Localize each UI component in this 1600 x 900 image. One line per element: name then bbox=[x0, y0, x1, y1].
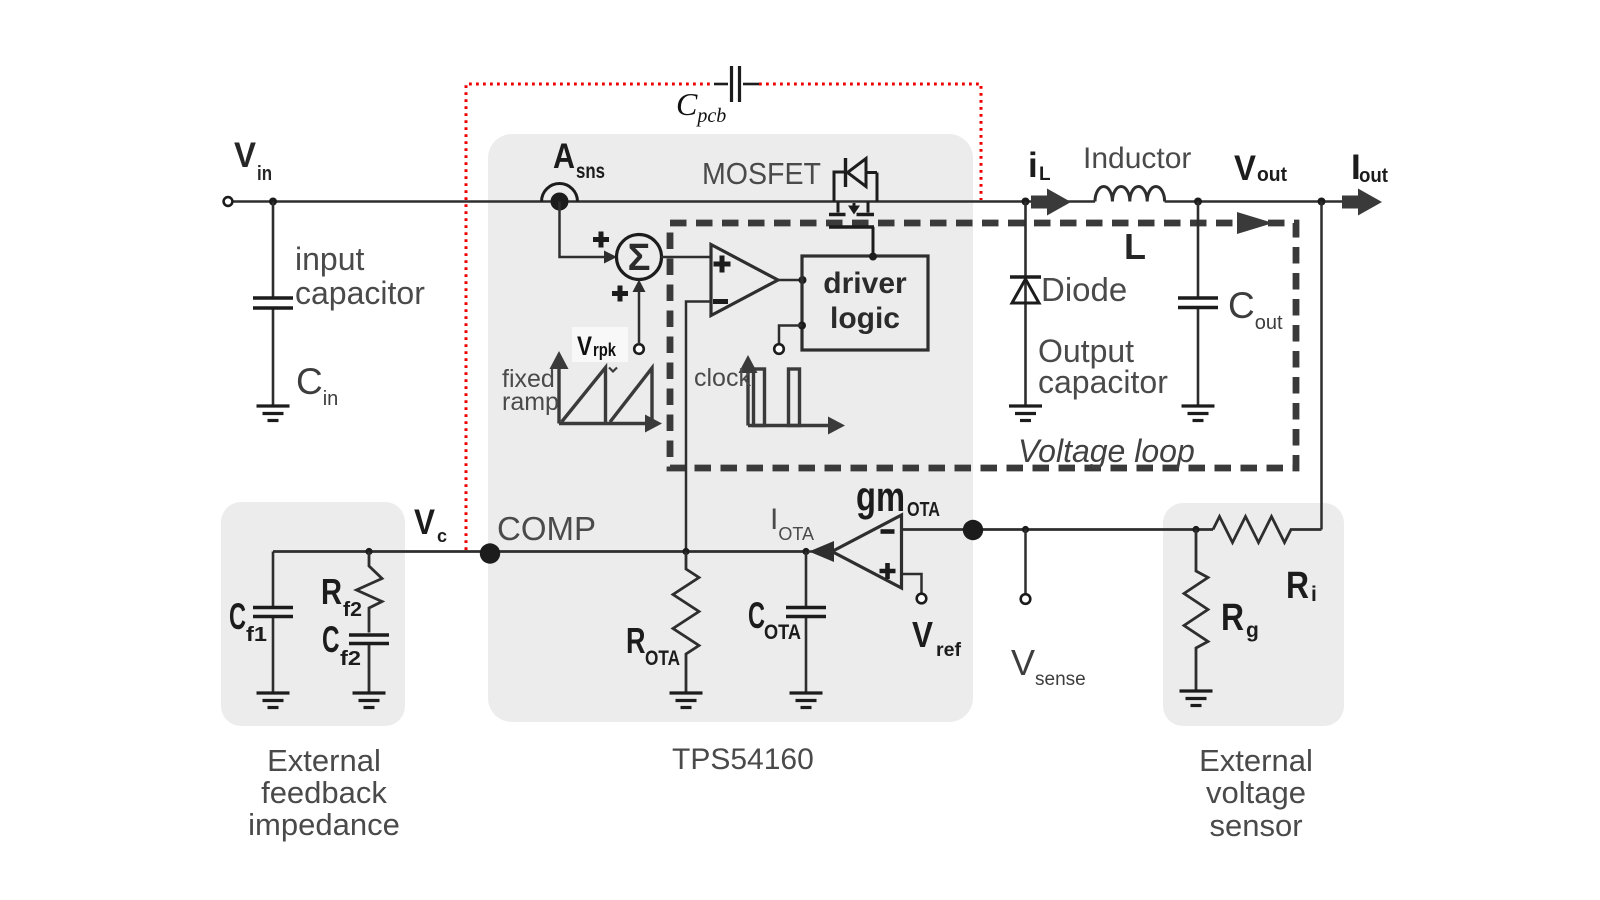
svg-text:f1: f1 bbox=[246, 624, 267, 646]
ground (Cf2) bbox=[353, 693, 386, 708]
svg-text:f2: f2 bbox=[343, 599, 362, 621]
summing junction bbox=[617, 235, 662, 280]
wire: main input rail Vin to Vout bbox=[232, 200, 1095, 202]
wire: summer to PWM comparator bbox=[661, 256, 711, 259]
capacitor Cin bbox=[253, 298, 293, 308]
Iout bold arrow bbox=[1342, 189, 1382, 216]
svg-text:V: V bbox=[912, 614, 933, 655]
clock icon bbox=[748, 369, 833, 426]
svg-text:V: V bbox=[234, 136, 257, 175]
op-amp gmOTA (OTA error amplifier) bbox=[832, 515, 902, 588]
parasitic feedback loop (red dotted net) bbox=[466, 84, 981, 550]
svg-text:OTA: OTA bbox=[645, 647, 680, 670]
svg-text:g: g bbox=[1246, 619, 1259, 642]
svg-text:gm: gm bbox=[856, 473, 905, 520]
capacitor COTA bbox=[805, 552, 808, 694]
svg-text:in: in bbox=[257, 163, 272, 185]
wire: Asns to summer bbox=[560, 202, 605, 258]
voltage loop (dashed box) bbox=[670, 223, 1296, 468]
driver logic block bbox=[802, 256, 928, 350]
svg-text:logic: logic bbox=[830, 302, 900, 335]
svg-text:ramp: ramp bbox=[502, 388, 559, 416]
svg-text:impedance: impedance bbox=[248, 807, 400, 842]
svg-text:feedback: feedback bbox=[261, 775, 387, 810]
svg-text:i: i bbox=[1028, 146, 1038, 185]
ground (Rg) bbox=[1180, 691, 1213, 706]
svg-text:capacitor: capacitor bbox=[1038, 364, 1168, 400]
label Vrpk bbox=[572, 327, 628, 362]
svg-text:COMP: COMP bbox=[497, 510, 596, 547]
svg-text:A: A bbox=[553, 137, 575, 176]
ground (COTA) bbox=[790, 693, 823, 708]
plus sign (ramp input) bbox=[612, 286, 628, 302]
svg-text:ref: ref bbox=[936, 640, 962, 661]
capacitor Cout bbox=[1178, 298, 1218, 308]
svg-text:out: out bbox=[1257, 164, 1287, 186]
diode bbox=[1010, 275, 1041, 278]
svg-text:External: External bbox=[267, 743, 381, 778]
svg-text:L: L bbox=[1124, 226, 1146, 267]
IC body TPS54160 (gray panel) bbox=[488, 134, 973, 722]
node Cout bbox=[1194, 198, 1202, 206]
wire: comparator output to driver logic bbox=[778, 279, 802, 282]
svg-text:Diode: Diode bbox=[1041, 271, 1127, 308]
svg-text:C: C bbox=[322, 619, 340, 660]
wire: Vref to OTA non-inverting input bbox=[902, 574, 922, 594]
resistor ROTA bbox=[673, 552, 699, 694]
node COTA bbox=[802, 548, 809, 555]
external feedback impedance panel bbox=[221, 502, 405, 726]
svg-text:R: R bbox=[321, 571, 342, 612]
node ROTA bbox=[682, 548, 689, 555]
svg-text:L: L bbox=[1039, 164, 1051, 185]
COMP rail bbox=[273, 550, 806, 553]
svg-text:sensor: sensor bbox=[1209, 808, 1302, 843]
resistor Ri (horizontal) bbox=[1213, 517, 1322, 543]
fixed ramp icon bbox=[559, 366, 652, 424]
resistor Rg bbox=[1184, 530, 1208, 692]
svg-text:sns: sns bbox=[576, 160, 605, 183]
wire: COMP to comparator inverting input bbox=[686, 302, 711, 552]
svg-text:c: c bbox=[437, 526, 447, 546]
ground (Cout) bbox=[1182, 406, 1215, 421]
svg-text:out: out bbox=[1359, 165, 1388, 187]
capacitor Cf2 bbox=[349, 635, 389, 644]
clock input pin of driver logic bbox=[798, 322, 806, 330]
svg-text:voltage: voltage bbox=[1206, 775, 1306, 810]
node Vsense tap bbox=[1022, 526, 1029, 533]
capacitor Cpcb bbox=[714, 66, 759, 102]
ground (ROTA) bbox=[670, 693, 703, 708]
svg-text:Voltage loop: Voltage loop bbox=[1018, 433, 1195, 469]
svg-text:TPS54160: TPS54160 bbox=[672, 743, 814, 776]
current sense Asns (arc + node) bbox=[542, 184, 578, 202]
svg-text:R: R bbox=[1286, 565, 1309, 607]
wire: Vout sense drop to Ri bbox=[1320, 202, 1323, 530]
ground (diode) bbox=[1009, 406, 1042, 421]
svg-text:MOSFET: MOSFET bbox=[702, 156, 821, 191]
node iL bbox=[1022, 198, 1030, 206]
ground (Cf1) bbox=[257, 693, 290, 708]
svg-text:R: R bbox=[1221, 597, 1244, 639]
svg-text:OTA: OTA bbox=[907, 499, 940, 521]
svg-text:i: i bbox=[1311, 583, 1317, 606]
svg-text:clock: clock bbox=[694, 364, 751, 392]
node Vout bbox=[1318, 198, 1326, 206]
external voltage sensor panel bbox=[1163, 503, 1344, 726]
PWM comparator bbox=[711, 245, 778, 316]
MOSFET switch bbox=[829, 158, 877, 256]
wire: Cin branch bbox=[272, 202, 275, 407]
diode branch bbox=[1024, 202, 1027, 407]
svg-text:V: V bbox=[414, 503, 436, 542]
svg-text:C: C bbox=[229, 596, 246, 637]
node COMP (big dot) bbox=[480, 543, 500, 563]
node Rf2 bbox=[365, 548, 372, 555]
wire: OTA output into COMP node bbox=[808, 550, 832, 553]
node Rg junction bbox=[1192, 526, 1199, 533]
svg-text:Inductor: Inductor bbox=[1083, 142, 1191, 175]
svg-text:C: C bbox=[748, 595, 765, 636]
loop direction arrow bbox=[1237, 212, 1273, 234]
wire: Cout branch bbox=[1197, 202, 1200, 407]
svg-text:V: V bbox=[1234, 149, 1257, 188]
node (big dot on sense rail) bbox=[963, 520, 983, 540]
ground (Cin) bbox=[257, 406, 290, 421]
iL bold arrow bbox=[1031, 189, 1071, 216]
resistor Rf2 bbox=[357, 552, 383, 694]
svg-text:V: V bbox=[577, 331, 592, 361]
svg-text:Σ: Σ bbox=[628, 237, 651, 279]
svg-text:capacitor: capacitor bbox=[295, 275, 425, 311]
svg-text:rpk: rpk bbox=[593, 340, 617, 360]
sense rail (OTA inverting input) bbox=[902, 528, 1214, 531]
svg-text:driver: driver bbox=[823, 267, 907, 300]
svg-text:f2: f2 bbox=[340, 648, 361, 670]
inductor L bbox=[1095, 186, 1165, 201]
terminal Vin (open) bbox=[224, 197, 233, 206]
ramp input Vrpk: open terminal + arrow into summer bbox=[634, 344, 644, 354]
svg-text:input: input bbox=[295, 241, 365, 277]
svg-text:OTA: OTA bbox=[764, 621, 801, 644]
capacitor Cf1 bbox=[272, 552, 275, 694]
wire: rail after inductor bbox=[1165, 200, 1342, 202]
svg-text:R: R bbox=[626, 620, 646, 661]
node: Cin junction bbox=[269, 198, 277, 206]
svg-text:External: External bbox=[1199, 743, 1313, 778]
plus sign (current input) bbox=[593, 232, 609, 248]
